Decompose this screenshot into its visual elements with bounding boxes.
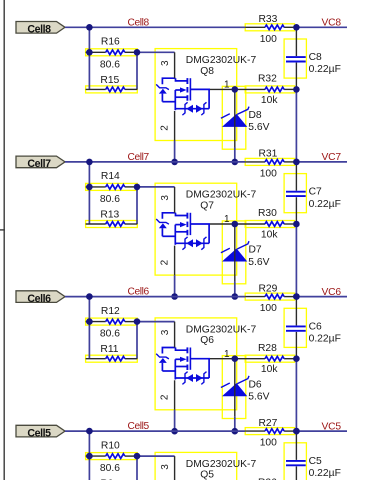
resistor R13 (86, 222, 138, 227)
capacitor C7 body box (284, 174, 306, 213)
port Cell6 (16, 291, 65, 305)
svg-text:1: 1 (224, 349, 230, 360)
wire resistor pair right vertical (136, 187, 138, 224)
wire resistor pair right vertical (136, 456, 138, 480)
resistor R11 (86, 356, 138, 361)
pin 2 (159, 380, 174, 410)
transistor Q8 DMG2302UK-7 N-MOSFET (156, 78, 210, 115)
junction D8 lower rail (232, 159, 239, 166)
zener diode D8 (221, 89, 249, 147)
junction C8 bottom (293, 86, 300, 93)
transistor Q7 DMG2302UK-7 N-MOSFET (156, 213, 210, 250)
zener diode D7 (221, 224, 249, 282)
wire pin 2 to lower rail (174, 141, 176, 162)
junction VC7 (293, 159, 300, 166)
junction R14 left (86, 184, 93, 191)
svg-text:R27: R27 (259, 418, 278, 429)
resistor R33 body box (245, 24, 294, 31)
port Cell8 (16, 22, 65, 36)
pin 3 (160, 52, 175, 78)
diode D7 body box (222, 221, 246, 284)
junction C7 bottom (293, 221, 300, 228)
svg-text:80.6: 80.6 (100, 329, 120, 340)
svg-text:Cell6: Cell6 (128, 287, 150, 298)
svg-text:R28: R28 (258, 343, 277, 354)
resistor R27 (245, 429, 294, 434)
svg-text:5.6V: 5.6V (248, 122, 269, 133)
pin 3 (160, 322, 175, 348)
junction R10 right (134, 453, 141, 460)
resistor R31 (245, 160, 294, 165)
resistor R32 body box (245, 86, 294, 93)
wire Cell8 rail (65, 26, 245, 28)
wire VC8 rail (294, 26, 347, 28)
resistor R11 body box (86, 355, 138, 362)
svg-text:C8: C8 (309, 52, 322, 63)
svg-text:5.6V: 5.6V (248, 392, 269, 403)
wire to gate pin 3 (137, 321, 175, 323)
junction port branch (86, 428, 93, 435)
transistor Q8 body box (155, 49, 237, 141)
wire VC6 rail (294, 296, 347, 298)
junction C6 bottom (293, 355, 300, 362)
svg-text:80.6: 80.6 (100, 59, 120, 70)
svg-text:C5: C5 (309, 456, 322, 467)
junction pin2 lower rail (171, 428, 178, 435)
svg-text:R14: R14 (101, 171, 120, 182)
svg-text:10k: 10k (261, 364, 278, 375)
diode D6 body box (222, 356, 246, 419)
wire resistor pair right vertical (136, 322, 138, 359)
junction cap lower rail (293, 293, 300, 300)
svg-text:10k: 10k (261, 229, 278, 240)
svg-text:R31: R31 (259, 149, 278, 160)
svg-text:1: 1 (224, 80, 230, 91)
resistor R15 body box (86, 86, 138, 93)
svg-text:Cell8: Cell8 (27, 24, 51, 36)
capacitor C5 body box (284, 443, 306, 480)
svg-text:R11: R11 (100, 344, 118, 355)
svg-text:1: 1 (224, 214, 230, 225)
svg-text:VC7: VC7 (322, 152, 342, 163)
svg-text:Q5: Q5 (200, 470, 214, 480)
resistor R28 body box (245, 355, 294, 362)
transistor Q6 DMG2302UK-7 N-MOSFET (156, 347, 210, 384)
svg-text:0.22µF: 0.22µF (309, 64, 341, 75)
zener diode D6 (221, 359, 249, 417)
junction D6 lower rail (232, 428, 239, 435)
resistor R32 (246, 87, 294, 92)
junction R12 left (86, 318, 93, 325)
svg-text:C6: C6 (309, 321, 322, 332)
capacitor C6 (286, 298, 306, 358)
svg-text:Cell6: Cell6 (27, 293, 51, 305)
svg-text:DMG2302UK-7: DMG2302UK-7 (186, 324, 257, 335)
svg-text:VC6: VC6 (322, 287, 342, 298)
resistor R14 (86, 185, 138, 190)
svg-text:Q7: Q7 (200, 201, 214, 212)
resistor R12 body box (86, 318, 138, 325)
svg-text:D7: D7 (249, 245, 262, 256)
svg-text:VC8: VC8 (322, 18, 342, 29)
wire R32 right stub (294, 88, 296, 90)
junction VC8 (293, 24, 300, 31)
resistor R29 (245, 294, 294, 299)
wire pin 2 to lower rail (174, 410, 176, 431)
resistor R16 body box (86, 49, 138, 56)
svg-text:R32: R32 (258, 74, 277, 85)
junction VC6 (293, 293, 300, 300)
capacitor C5 (286, 433, 306, 480)
svg-text:100: 100 (260, 34, 277, 45)
resistor R14 body box (86, 183, 138, 190)
svg-text:R10: R10 (101, 440, 120, 451)
wire C6 node vertical (295, 359, 297, 432)
svg-text:R30: R30 (258, 208, 277, 219)
wire VC5 rail (294, 430, 347, 432)
capacitor C8 body box (284, 39, 306, 78)
wire D8 anode to lower rail (234, 147, 236, 162)
wire to gate pin 3 (137, 186, 175, 188)
resistor R13 body box (86, 221, 138, 228)
junction R16 right (134, 49, 141, 56)
junction cap lower rail (293, 159, 300, 166)
wire Cell7 rail (65, 161, 245, 163)
svg-text:R13: R13 (100, 210, 119, 221)
junction R14 right (134, 184, 141, 191)
wire port branch vertical (88, 162, 90, 224)
junction R16 left (86, 49, 93, 56)
svg-text:Cell8: Cell8 (128, 17, 150, 28)
resistor R15 (86, 87, 138, 92)
svg-text:0.22µF: 0.22µF (309, 334, 341, 345)
junction R12 right (134, 318, 141, 325)
wire Cell6 rail (65, 296, 245, 298)
svg-text:0.22µF: 0.22µF (309, 468, 341, 479)
port Cell7 (16, 156, 65, 170)
wire resistor pair right vertical (136, 52, 138, 89)
wire to gate pin 3 (137, 51, 175, 53)
resistor R33 (245, 25, 294, 30)
transistor Q5 body box (155, 452, 237, 480)
svg-text:R16: R16 (101, 37, 120, 48)
wire C7 node vertical (295, 224, 297, 297)
svg-text:C7: C7 (309, 187, 322, 198)
junction port branch (86, 293, 93, 300)
svg-text:D6: D6 (249, 379, 262, 390)
svg-text:2: 2 (159, 394, 170, 400)
sheet border line (3, 0, 5, 480)
capacitor C6 body box (284, 308, 306, 347)
wire R28 right stub (294, 358, 296, 360)
wire port branch vertical (88, 431, 90, 480)
svg-text:Q8: Q8 (200, 66, 214, 77)
wire Cell5 rail (65, 430, 245, 432)
resistor R30 (246, 222, 294, 227)
wire VC7 rail (294, 161, 347, 163)
junction gate node (232, 221, 239, 228)
port Cell5 (16, 425, 65, 439)
svg-text:R15: R15 (100, 75, 119, 86)
resistor R27 body box (245, 428, 294, 435)
wire pin 2 to lower rail (174, 275, 176, 296)
resistor R10 (86, 454, 138, 459)
svg-text:0.22µF: 0.22µF (309, 199, 341, 210)
svg-text:100: 100 (260, 169, 277, 180)
transistor Q6 body box (155, 318, 237, 410)
resistor R31 body box (245, 158, 294, 165)
junction gate node (232, 355, 239, 362)
svg-text:2: 2 (159, 259, 170, 265)
svg-text:Q6: Q6 (200, 335, 214, 346)
pin 1 (210, 80, 246, 91)
transistor Q7 body box (155, 183, 237, 275)
svg-text:DMG2302UK-7: DMG2302UK-7 (186, 459, 257, 470)
junction D7 lower rail (232, 293, 239, 300)
wire port branch vertical (88, 297, 90, 359)
svg-text:100: 100 (260, 438, 277, 449)
junction gate node (232, 86, 239, 93)
svg-text:10k: 10k (261, 95, 278, 106)
svg-text:DMG2302UK-7: DMG2302UK-7 (186, 55, 257, 66)
junction pin2 lower rail (171, 293, 178, 300)
wire R30 right stub (294, 223, 296, 225)
junction port branch (86, 159, 93, 166)
svg-text:80.6: 80.6 (100, 194, 120, 205)
junction port branch (86, 24, 93, 31)
resistor R28 (246, 356, 294, 361)
pin 2 (159, 111, 174, 141)
wire D7 anode to lower rail (234, 282, 236, 297)
svg-text:Cell7: Cell7 (27, 158, 51, 170)
svg-text:3: 3 (160, 329, 171, 335)
svg-text:100: 100 (260, 303, 277, 314)
pin 1 (210, 349, 246, 360)
svg-text:3: 3 (160, 464, 171, 470)
pin 3 (160, 456, 175, 480)
svg-text:Cell7: Cell7 (128, 152, 150, 163)
pin 1 (210, 214, 246, 225)
svg-text:Cell5: Cell5 (128, 421, 150, 432)
resistor R30 body box (245, 221, 294, 228)
junction pin2 lower rail (171, 159, 178, 166)
svg-text:Cell5: Cell5 (27, 427, 51, 439)
sheet border tick (0, 229, 5, 231)
svg-text:5.6V: 5.6V (248, 257, 269, 268)
svg-text:2: 2 (159, 125, 170, 131)
wire D6 anode to lower rail (234, 416, 236, 431)
svg-text:D8: D8 (249, 110, 262, 121)
wire port branch vertical (88, 27, 90, 89)
junction R10 left (86, 453, 93, 460)
junction cap lower rail (293, 428, 300, 435)
svg-text:DMG2302UK-7: DMG2302UK-7 (186, 190, 257, 201)
svg-text:VC5: VC5 (322, 421, 342, 432)
resistor R12 (86, 319, 138, 324)
wire C8 node vertical (295, 89, 297, 161)
junction VC5 (293, 428, 300, 435)
resistor R29 body box (245, 293, 294, 300)
wire to gate pin 3 (137, 455, 175, 457)
pin 2 (159, 246, 174, 276)
svg-text:R29: R29 (259, 283, 278, 294)
svg-text:80.6: 80.6 (100, 463, 120, 474)
resistor R16 (86, 50, 138, 55)
capacitor C7 (286, 163, 306, 223)
svg-text:3: 3 (160, 195, 171, 201)
svg-text:R33: R33 (259, 14, 278, 25)
diode D8 body box (222, 86, 246, 149)
capacitor C8 (286, 29, 306, 89)
svg-text:3: 3 (160, 60, 171, 66)
resistor R10 body box (86, 453, 138, 460)
svg-text:R12: R12 (101, 306, 120, 317)
pin 3 (160, 187, 175, 213)
